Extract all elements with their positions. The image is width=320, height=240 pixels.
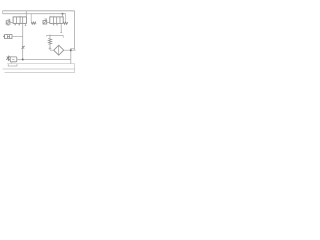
wire mid line right stub down: [62, 35, 64, 37]
coupling PG1 inner bars: [8, 35, 10, 38]
solenoid V1 connector pin: [8, 19, 11, 21]
tank T1: [5, 64, 75, 73]
solenoid V1 lower tick: [7, 24, 9, 26]
coupling PG1 arrow: [3, 35, 5, 38]
valve V2 top stubs: [51, 16, 54, 17]
wire top bus P line: [3, 10, 75, 12]
check valve arrow on V1 line: [22, 46, 25, 49]
pump drive mark: [6, 56, 10, 62]
node junction filter return: [70, 49, 72, 51]
coupling PG1 body: [5, 35, 12, 39]
motor M1 box: [10, 57, 17, 62]
valve V1 dividers: [17, 17, 23, 24]
motor M1 inner dash: [12, 58, 15, 60]
filter F1 diamond: [54, 45, 64, 55]
relief valve RV1 spring line: [49, 35, 51, 50]
valve V1 right port stub: [25, 23, 27, 25]
valve V1 bottom port stubs: [14, 23, 20, 25]
solenoid V2: [43, 21, 47, 24]
node junction at branch to V2: [62, 13, 64, 15]
wire relief to filter: [50, 49, 54, 51]
wire riser end tick: [75, 49, 77, 51]
suction strainer: [8, 64, 17, 66]
solenoid V1: [6, 21, 10, 24]
wire right jog: [71, 47, 75, 49]
relief valve RV1 spring coils: [48, 38, 51, 44]
solenoid V2 connector pin: [44, 19, 47, 21]
spring W2: [64, 22, 68, 25]
spring W2 drop wire: [65, 14, 67, 23]
relief valve RV1 seat crossbar: [49, 47, 52, 49]
wire coupling to service line: [12, 35, 23, 37]
wire second bus branch line: [3, 13, 66, 15]
relief valve RV1 top tick: [49, 34, 51, 35]
wire right return riser: [74, 11, 76, 50]
wire pump outlet line: [17, 59, 71, 61]
valve V2 dividers: [54, 17, 61, 24]
valve V2 outlet line down: [60, 23, 62, 32]
valve V1 body: [13, 17, 26, 24]
solenoid V1 link to body: [10, 22, 13, 24]
wire mid manifold line: [47, 34, 64, 36]
spring W1: [31, 22, 36, 24]
wire feed drop to valve V2: [62, 14, 64, 17]
valve V2 bottom port stubs: [53, 23, 58, 25]
filter F1 element line: [58, 45, 60, 55]
node junction pump line / service line: [22, 59, 24, 61]
wire return drop to tank: [70, 48, 72, 63]
wire pump suction: [10, 62, 12, 64]
wire feed drop to valve V1: [25, 11, 27, 17]
solenoid V2 link to body: [46, 22, 50, 24]
valve V2 body: [50, 17, 63, 24]
tank T1 fluid level line: [3, 68, 75, 70]
wire valve V1 service line down: [22, 23, 24, 59]
spring W1 drop wire: [30, 14, 32, 23]
wire mid line left end tick: [46, 35, 48, 36]
wire filter to return riser: [64, 49, 75, 51]
valve V1 top stub: [19, 16, 21, 17]
wire left bus drop: [2, 11, 4, 14]
